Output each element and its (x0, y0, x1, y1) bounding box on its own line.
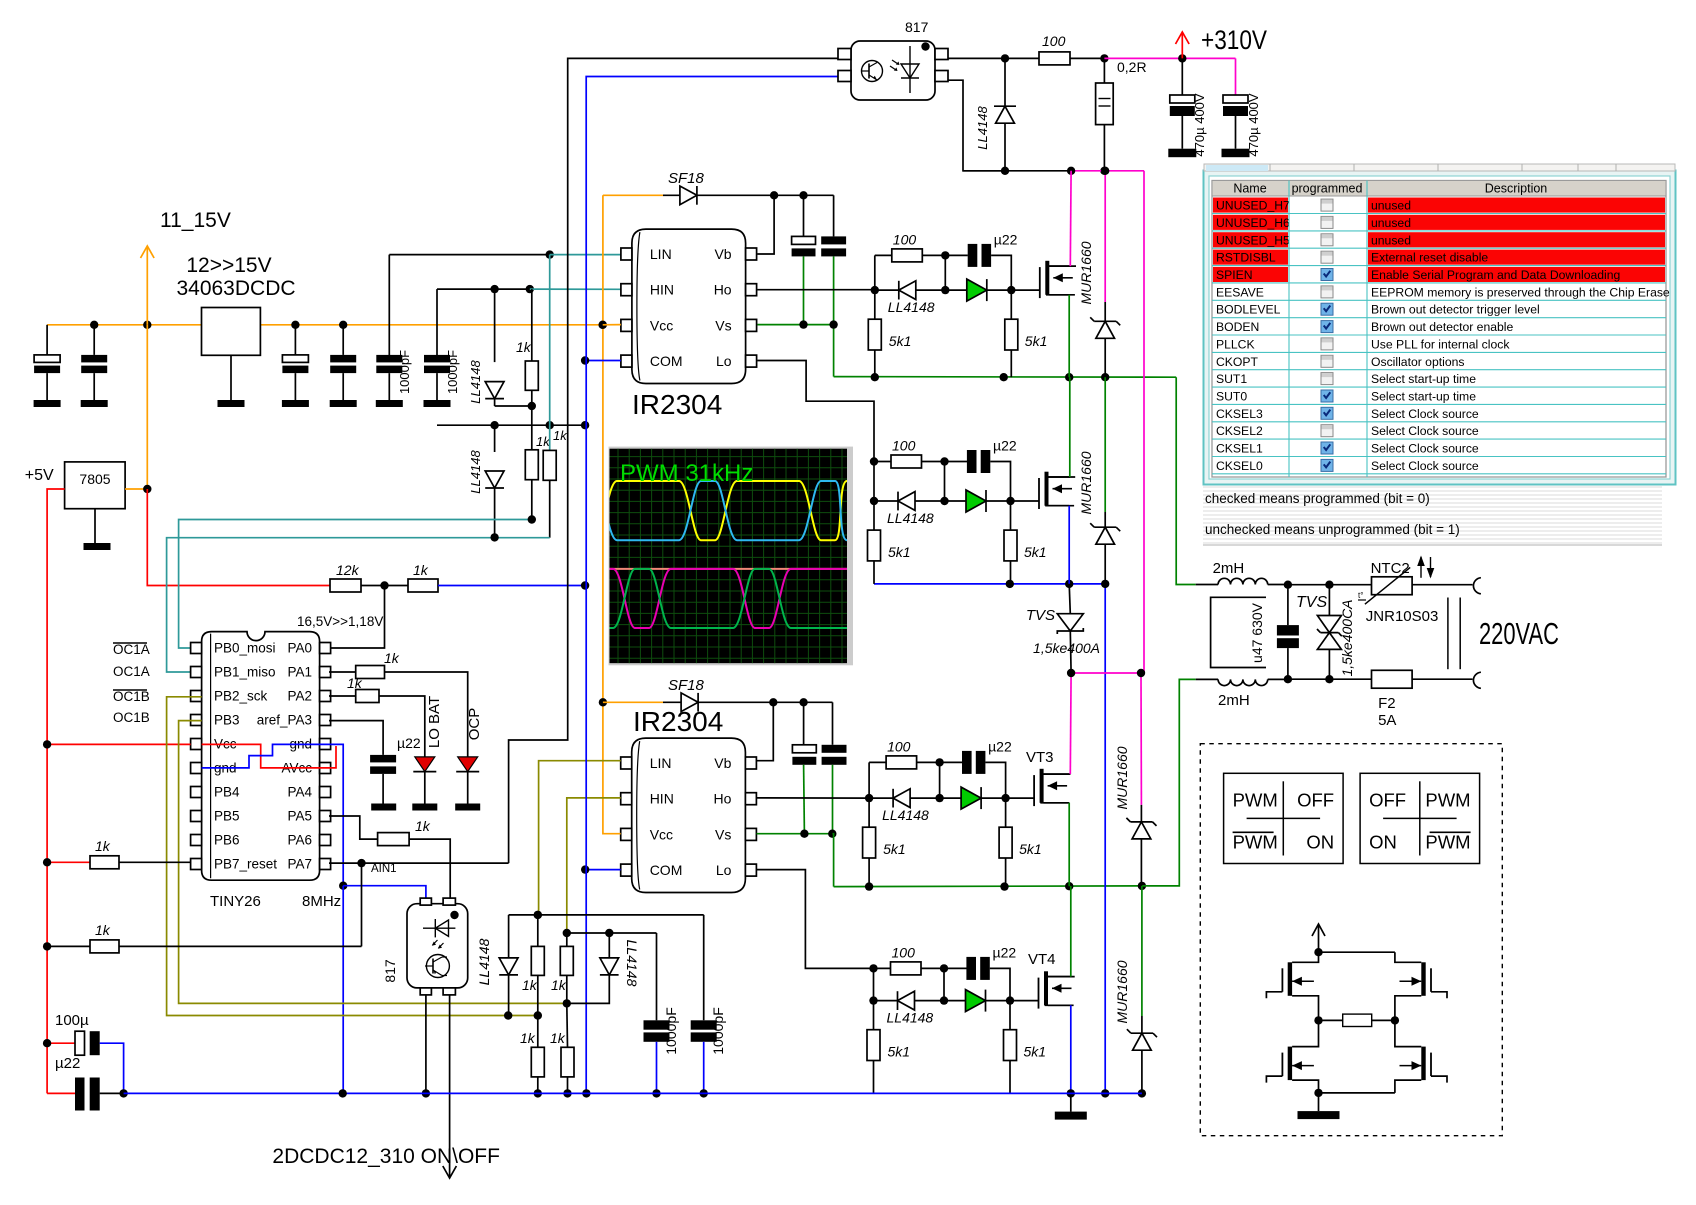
wire VT4 res to cap (921, 967, 967, 969)
capacitor C16 u47 bracket (1211, 597, 1266, 667)
svg-text:MUR1660: MUR1660 (1114, 960, 1130, 1023)
resistor 1k c2 (537, 915, 539, 947)
resistor 5k1 VT1 left (874, 290, 876, 319)
wire green bus1 to coil (1176, 377, 1196, 584)
capacitor C7 u22 (370, 755, 396, 763)
table AVR fuse bits (1203, 170, 1676, 485)
diode gate green VT2 (945, 500, 971, 502)
svg-text:LIN: LIN (650, 246, 672, 262)
ground of 7805 (94, 509, 96, 543)
svg-text:1k: 1k (347, 675, 363, 691)
wire VT2 drain green (1045, 476, 1070, 478)
svg-text:CKSEL1: CKSEL1 (1216, 442, 1263, 456)
svg-text:12>>15V: 12>>15V (186, 254, 271, 277)
wire sense net y171 (963, 170, 1071, 172)
svg-text:PB4: PB4 (214, 785, 240, 800)
capacitor C11 bootstrap elec (832, 702, 834, 745)
svg-text:Lo: Lo (716, 862, 732, 878)
wire teal HIN1 pin (530, 288, 621, 290)
svg-text:470µ 400V: 470µ 400V (1246, 93, 1261, 156)
svg-text:RSTDISBL: RSTDISBL (1216, 251, 1276, 265)
svg-text:TINY26: TINY26 (210, 893, 261, 910)
svg-text:5k1: 5k1 (1024, 1044, 1047, 1060)
diode MUR1660 no2 (1104, 377, 1106, 512)
wire PA1 to OCP (385, 672, 468, 757)
svg-text:220VAC: 220VAC (1479, 616, 1559, 651)
svg-text:PWM: PWM (1425, 831, 1470, 852)
power symbol +310V arrow (1181, 33, 1183, 58)
diode D-LL4148b (494, 425, 496, 452)
wire VT3 res to cap (917, 761, 963, 763)
svg-text:5k1: 5k1 (1024, 544, 1047, 560)
wire blue main left (586, 77, 838, 1094)
svg-text:CKSEL2: CKSEL2 (1216, 424, 1263, 438)
svg-text:Select Clock source: Select Clock source (1371, 459, 1479, 473)
diode LL4148 VT1 (875, 289, 899, 291)
wire VT3 mid vert (939, 762, 941, 798)
wire 7805 input orange up (125, 325, 147, 489)
svg-text:PWM: PWM (1233, 789, 1278, 810)
wire magenta tvs row (1071, 672, 1144, 674)
svg-text:PA4: PA4 (287, 785, 312, 800)
diode TVS bridge (1069, 584, 1070, 614)
svg-text:HIN: HIN (650, 282, 674, 298)
svg-text:MUR1660: MUR1660 (1078, 451, 1094, 514)
wire VT4 mid vert (943, 968, 945, 1000)
svg-text:PB1_miso: PB1_miso (214, 665, 276, 680)
svg-text:LL4148: LL4148 (624, 940, 640, 987)
resistor R-1k a (531, 289, 533, 361)
capacitor C10 bootstrap poly (803, 702, 805, 745)
svg-text:VT3: VT3 (1026, 749, 1054, 766)
wire Ho2 (757, 797, 870, 799)
svg-text:unused: unused (1371, 233, 1411, 247)
diode TVS output (1328, 585, 1330, 616)
resistor 5k1 VT1 right (1010, 290, 1012, 319)
svg-text:1k: 1k (553, 428, 568, 443)
svg-text:Vb: Vb (714, 246, 731, 262)
diode D SF18 lower (603, 701, 663, 703)
svg-text:PB6: PB6 (214, 833, 240, 848)
diode LL4148 c (508, 915, 510, 958)
capacitor 1000pF g2 (703, 915, 705, 1020)
svg-text:TVS: TVS (1296, 594, 1327, 611)
wire gnd blue to opto (343, 886, 426, 898)
svg-text:PB2_sck: PB2_sck (214, 689, 268, 704)
wire VT3 drain magenta (1040, 773, 1070, 775)
wire teal PB1 net (167, 538, 550, 672)
svg-text:5k1: 5k1 (888, 544, 911, 560)
wire mid y425 (437, 424, 586, 426)
wire Vs2 down green (833, 834, 834, 887)
svg-text:Enable Serial Program and Data: Enable Serial Program and Data Downloadi… (1371, 268, 1620, 282)
svg-text:1,5ke400A: 1,5ke400A (1033, 640, 1100, 656)
svg-text:aref_PA3: aref_PA3 (257, 713, 312, 728)
resistor R PA5 1k (378, 833, 410, 846)
wire HIN2 olive (567, 798, 621, 933)
capacitor C12 470u (1181, 58, 1183, 95)
svg-text:Select Clock source: Select Clock source (1371, 424, 1479, 438)
wire VT4 input vert (873, 968, 875, 1000)
wire PB2 olive (167, 697, 538, 1016)
wire PA2 to LOBAT (379, 696, 425, 757)
wire 12k-1k junction (361, 585, 408, 587)
svg-text:Select Clock source: Select Clock source (1371, 442, 1479, 456)
svg-text:unused: unused (1371, 199, 1411, 213)
svg-text:Name: Name (1233, 182, 1266, 196)
svg-text:UNUSED_H5: UNUSED_H5 (1216, 233, 1290, 247)
svg-text:LO BAT: LO BAT (426, 696, 443, 748)
svg-text:1k: 1k (550, 1030, 566, 1046)
optocoupler U7 LED (423, 927, 455, 929)
wire green bus1 (834, 376, 1177, 379)
resistor 1k d2 (566, 933, 568, 946)
capacitor u22 VT2 (967, 450, 977, 473)
svg-text:PWM 31kHz: PWM 31kHz (620, 460, 753, 487)
wire olive1 1k bottoms (534, 1089, 542, 1097)
diode D SF18 upper (603, 194, 663, 196)
svg-text:CKOPT: CKOPT (1216, 355, 1259, 369)
wire VT1 cap corner (991, 255, 1011, 290)
wire net-LIN1 y254 (389, 254, 549, 256)
resistor R 100 VT1 (892, 249, 923, 262)
resistor 5k1 VT4 left (873, 1001, 875, 1030)
svg-text:5k1: 5k1 (888, 1044, 911, 1060)
wire opto2 right pin up (449, 897, 452, 899)
svg-text:100: 100 (892, 944, 916, 960)
wire PA5 (329, 816, 378, 839)
svg-text:PLLCK: PLLCK (1216, 337, 1255, 351)
capacitor C3 polarized (294, 325, 296, 355)
svg-text:1k: 1k (95, 922, 111, 938)
wire teal PB0 net (179, 520, 532, 649)
optocoupler U7 transistor (426, 955, 449, 978)
svg-text:100: 100 (892, 438, 916, 454)
svg-text:Ho: Ho (713, 791, 731, 807)
svg-text:µ22: µ22 (397, 735, 421, 751)
resistor R 100 VT2 (891, 455, 922, 468)
svg-text:5k1: 5k1 (1019, 841, 1042, 857)
svg-text:Vs: Vs (715, 317, 731, 333)
svg-text:470µ 400V: 470µ 400V (1192, 93, 1207, 156)
svg-text:BODLEVEL: BODLEVEL (1216, 303, 1281, 317)
svg-text:8MHz: 8MHz (302, 893, 341, 910)
svg-text:1000pF: 1000pF (710, 1007, 726, 1054)
wire PB3 olive (179, 721, 567, 1004)
resistor R AIN 1k (47, 945, 90, 947)
resistor 5k1 VT4 right (1009, 1001, 1011, 1030)
svg-text:µ22: µ22 (993, 944, 1017, 960)
svg-text:Select start-up time: Select start-up time (1371, 390, 1476, 404)
diode gate green VT1 (945, 289, 971, 291)
optocoupler U7 817 body (407, 904, 468, 988)
svg-text:F2: F2 (1378, 695, 1396, 712)
connector plug bottom (1473, 672, 1480, 688)
capacitor C15 u22 (47, 1092, 75, 1094)
svg-text:IR2304: IR2304 (633, 706, 723, 737)
wire green bus3 (834, 885, 1142, 888)
wire VT1 res corner (875, 254, 892, 256)
resistor R-1k b (531, 406, 533, 450)
optocoupler U6 transistor (862, 61, 883, 82)
diode MUR1660 no1 (1104, 171, 1106, 302)
optocoupler U7 pins (420, 898, 431, 905)
diode LL4148 d (608, 933, 610, 958)
svg-text:MUR1660: MUR1660 (1114, 746, 1130, 809)
svg-text:UNUSED_H7: UNUSED_H7 (1216, 199, 1290, 213)
svg-text:1k: 1k (522, 977, 538, 993)
svg-text:IR2304: IR2304 (632, 389, 722, 420)
optocoupler U6 pins (838, 49, 851, 60)
svg-text:COM: COM (650, 353, 683, 369)
svg-text:Vcc: Vcc (650, 826, 673, 842)
wire 11_15V orange rail (47, 324, 603, 326)
svg-text:+5V: +5V (25, 467, 54, 484)
capacitor C4 (342, 325, 344, 355)
resistor R 100 top (1005, 57, 1039, 59)
svg-text:HIN: HIN (650, 791, 674, 807)
svg-text:0,2R: 0,2R (1117, 59, 1147, 75)
svg-text:LL4148: LL4148 (476, 938, 492, 985)
table notes background (1203, 486, 1662, 488)
resistor R 100 VT4 (891, 962, 922, 975)
resistor R PA1 1k (329, 671, 356, 673)
resistor R-1k c (549, 255, 551, 451)
svg-text:PA5: PA5 (287, 809, 312, 824)
svg-text:PB7_reset: PB7_reset (214, 857, 277, 872)
svg-text:1k: 1k (520, 1030, 536, 1046)
legend MOSFET M3 (1421, 962, 1425, 996)
resistor 5k1 VT2 left (873, 501, 875, 530)
capacitor C8 bootstrap poly (803, 195, 805, 236)
resistor R-1k divider (408, 579, 438, 592)
wire VT4 drain green (1045, 976, 1071, 978)
wire gnd blue to bus (342, 886, 344, 1094)
wire PA7 AIN1 (329, 862, 509, 864)
wire VT3 cap corner (985, 762, 1005, 798)
svg-text:VT4: VT4 (1028, 951, 1056, 968)
legend ground (1318, 1093, 1320, 1111)
svg-text:PA7: PA7 (287, 857, 312, 872)
wire Ho1 (757, 289, 874, 291)
wire COM1 blue (585, 360, 621, 362)
svg-text:1k: 1k (516, 339, 532, 355)
optocoupler U6 817 body (851, 41, 935, 100)
wire Vb1 (757, 195, 774, 254)
svg-text:µ22: µ22 (55, 1055, 80, 1072)
svg-text:PA2: PA2 (287, 689, 312, 704)
arrows updown (1420, 557, 1422, 578)
wire VT2 mid vert (944, 462, 946, 502)
svg-text:2mH: 2mH (1213, 560, 1245, 577)
svg-text:TVS: TVS (1026, 607, 1055, 624)
wire VT1 res to cap (922, 254, 968, 256)
wire lineA (509, 914, 704, 916)
resistor 5k1 VT3 left (868, 798, 870, 827)
svg-text:checked means programmed (bit: checked means programmed (bit = 0) (1205, 491, 1430, 506)
svg-text:CKSEL0: CKSEL0 (1216, 459, 1263, 473)
legend MOSFET M4 (1421, 1047, 1425, 1081)
svg-text:µ22: µ22 (993, 438, 1017, 454)
wire VT2 res to cap (922, 461, 968, 463)
svg-text:PWM: PWM (1425, 789, 1470, 810)
legend table left (1224, 773, 1344, 863)
svg-text:Select start-up time: Select start-up time (1371, 372, 1476, 386)
diode MUR1660 no4 (1141, 886, 1143, 1016)
svg-text:+310V: +310V (1201, 25, 1267, 55)
svg-text:1k: 1k (551, 977, 567, 993)
svg-text:OCP: OCP (466, 708, 483, 741)
svg-text:Ho: Ho (714, 282, 732, 298)
svg-text:Lo: Lo (716, 353, 732, 369)
svg-text:LL4148: LL4148 (468, 450, 483, 494)
wire 7805 output red (47, 489, 65, 1093)
svg-text:LL4148: LL4148 (887, 510, 934, 526)
svg-text:ON: ON (1369, 831, 1397, 852)
svg-text:PB5: PB5 (214, 809, 240, 824)
diode MUR1660 no3 (1140, 673, 1142, 805)
power symbol 11_15V arrow (146, 247, 148, 325)
wire Vcc-AVcc red zigzag (202, 744, 336, 768)
svg-text:LIN: LIN (650, 755, 672, 771)
capacitor C14 100u (47, 1042, 75, 1044)
diode gate green VT3 (940, 797, 966, 799)
wire gnd-gnd blue zigzag (202, 744, 331, 768)
svg-text:100: 100 (1042, 33, 1066, 49)
svg-text:OC1B: OC1B (113, 710, 150, 725)
legend dashed box (1200, 744, 1502, 1136)
wire opto2 out arrow (449, 995, 451, 1178)
svg-text:34063DCDC: 34063DCDC (176, 277, 295, 300)
wire 100 to sense (1070, 57, 1104, 59)
IC U3 TINY26 body (202, 632, 320, 881)
svg-text:programmed: programmed (1292, 182, 1363, 196)
legend power arrow (1318, 925, 1320, 952)
wire 817 out bottom (948, 80, 1005, 171)
svg-text:u47 630V: u47 630V (1249, 602, 1265, 663)
svg-text:CKSEL3: CKSEL3 (1216, 407, 1263, 421)
svg-text:PWM: PWM (1233, 831, 1278, 852)
legend MOSFET M2 (1288, 1047, 1292, 1081)
svg-text:µ22: µ22 (988, 738, 1012, 754)
legend top rail (1319, 951, 1395, 953)
svg-text:Description: Description (1485, 182, 1548, 196)
svg-text:unchecked means unprogrammed (: unchecked means unprogrammed (bit = 1) (1205, 522, 1460, 537)
svg-text:COM: COM (650, 862, 683, 878)
transistor MOSFET VT4 (1038, 978, 1040, 1009)
svg-text:5k1: 5k1 (889, 333, 912, 349)
wire VT2 input vert (873, 462, 875, 502)
transistor MOSFET VT3 (1033, 775, 1035, 806)
resistor R PA2 1k (329, 695, 356, 697)
svg-text:UNUSED_H6: UNUSED_H6 (1216, 216, 1290, 230)
wire VT2 source blue (1045, 505, 1069, 507)
diode LL4148 VT2 (874, 500, 898, 502)
resistor R PB7 1k (47, 861, 90, 863)
wire VT3 input vert (868, 762, 870, 798)
connector plug top (1473, 578, 1480, 594)
wire Vcc red (47, 743, 191, 745)
IC U1 34063 DCDC box (202, 308, 261, 356)
svg-text:JNR10S03: JNR10S03 (1366, 608, 1439, 625)
wire LIN2 olive (539, 761, 621, 915)
diode D LL4148 top (1004, 58, 1006, 106)
svg-text:PB0_mosi: PB0_mosi (214, 641, 276, 656)
svg-text:SF18: SF18 (668, 170, 705, 187)
wire PA3 to cap (329, 721, 383, 755)
capacitor u22 VT1 (968, 244, 978, 267)
wire sense magenta top (1104, 57, 1235, 59)
svg-text:11_15V: 11_15V (160, 209, 231, 232)
svg-text:OFF: OFF (1369, 789, 1406, 810)
wire VT3 res corner (869, 761, 886, 763)
inductor L1 2mH (1196, 584, 1218, 586)
svg-text:Oscillator options: Oscillator options (1371, 355, 1464, 369)
wire 817 out top (948, 57, 1005, 59)
diode D-LL4148a (494, 289, 496, 362)
svg-text:1000pF: 1000pF (663, 1007, 679, 1054)
capacitor 1000pF g1 (656, 933, 658, 1020)
transistor MOSFET VT1 (1039, 267, 1041, 298)
svg-text:OC1B: OC1B (113, 689, 150, 704)
svg-text:LL4148: LL4148 (887, 1010, 934, 1026)
svg-text:External reset disable: External reset disable (1371, 251, 1488, 265)
ground at VT4 (1070, 1093, 1072, 1111)
wire teal LIN1 pin (550, 254, 621, 256)
svg-text:5k1: 5k1 (883, 841, 906, 857)
wire Vb2 (756, 760, 758, 762)
svg-text:5A: 5A (1378, 712, 1396, 729)
LED OCP (458, 757, 478, 772)
ground of 34063 (230, 355, 232, 400)
svg-text:LL4148: LL4148 (882, 807, 929, 823)
wire magenta right vertical (1143, 171, 1145, 673)
svg-text:1k: 1k (384, 650, 400, 666)
svg-text:SUT0: SUT0 (1216, 390, 1247, 404)
wire VT1 mid vert (944, 255, 946, 290)
wire COM2 blue (585, 869, 621, 871)
wire VT2 cap corner (990, 462, 1010, 502)
wire blue bottom bus (124, 1092, 1142, 1094)
wire NTC to plug (1412, 584, 1472, 586)
wire VT4 cap corner (990, 968, 1010, 1000)
svg-text:1000pF: 1000pF (445, 350, 460, 394)
svg-text:1k: 1k (413, 562, 429, 578)
svg-text:PA6: PA6 (287, 833, 312, 848)
resistor R 0.2R shunt (1103, 58, 1105, 83)
svg-text:SF18: SF18 (668, 677, 705, 694)
svg-text:OC1A: OC1A (113, 664, 150, 679)
svg-text:SUT1: SUT1 (1216, 372, 1247, 386)
wire VT1 input vert (874, 255, 876, 290)
capacitor C13 470u (1235, 58, 1237, 95)
svg-text:µ22: µ22 (994, 231, 1018, 247)
svg-text:OFF: OFF (1297, 789, 1334, 810)
LED LO BAT (415, 757, 435, 772)
connector separator (1447, 598, 1449, 670)
svg-text:Vb: Vb (714, 755, 731, 771)
resistor 5k1 VT2 right (1010, 501, 1012, 530)
svg-text:EEPROM memory is preserved thr: EEPROM memory is preserved through the C… (1371, 285, 1670, 299)
capacitor u22 VT4 (966, 957, 976, 980)
svg-text:LL4148: LL4148 (975, 106, 990, 150)
svg-text:1k: 1k (95, 838, 111, 854)
svg-text:817: 817 (905, 19, 929, 35)
svg-text:LL4148: LL4148 (888, 299, 935, 315)
wire opto2 left pin down (425, 995, 427, 1094)
svg-text:100: 100 (893, 231, 917, 247)
wire VT1 source green (1046, 294, 1069, 296)
